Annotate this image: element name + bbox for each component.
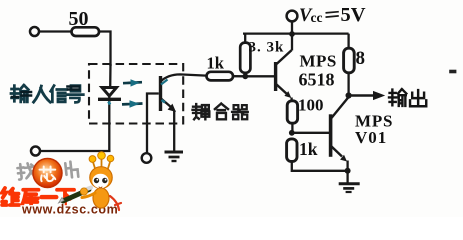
svg-text:3. 3k: 3. 3k <box>249 40 285 56</box>
wire output with arrow <box>352 91 386 100</box>
optocoupler dashed box <box>89 64 183 124</box>
resistor R2 1k <box>207 72 234 81</box>
svg-text:MPS: MPS <box>300 52 337 71</box>
node junction J1 <box>242 73 248 79</box>
svg-text:cc: cc <box>311 10 323 25</box>
wire <box>233 75 245 77</box>
transistor Q3 MPS V01 <box>331 98 348 171</box>
wire <box>291 123 293 133</box>
label ouheqi char ou <box>193 104 210 119</box>
svg-text:V01: V01 <box>355 128 387 147</box>
node junction J5 output <box>346 92 352 98</box>
wire emitter rail <box>292 162 348 171</box>
ground main <box>339 171 360 192</box>
LED D1 <box>98 64 121 151</box>
label shuru-xinhao char shu <box>11 85 28 102</box>
light arrow 2 <box>122 100 143 107</box>
resistor R5 1k <box>287 139 297 162</box>
terminal input bottom-left <box>31 147 40 156</box>
watermark mascot <box>82 152 121 210</box>
terminal input top-left <box>30 27 39 36</box>
svg-text:6518: 6518 <box>299 70 335 90</box>
label shuchu char shu <box>389 89 406 106</box>
svg-text:5V: 5V <box>341 4 366 26</box>
watermark red char yi <box>42 195 57 199</box>
node junction J2 <box>289 31 295 37</box>
node junction J3 <box>289 130 295 136</box>
label MPS V01 <box>355 112 393 147</box>
WATERMARK <box>2 152 121 217</box>
watermark char pian <box>65 161 78 178</box>
wire base of Q2 <box>245 75 274 77</box>
ground under optocoupler <box>165 152 184 161</box>
terminal Vcc <box>287 11 298 22</box>
resistor R3 3.3k <box>240 43 250 73</box>
transistor Q2 MPS6518 <box>276 50 292 101</box>
svg-text:1k: 1k <box>207 54 225 73</box>
label shuru-xinhao char ru <box>34 86 51 102</box>
terminal base open <box>142 153 152 163</box>
label Vcc=5V <box>299 4 366 26</box>
wire <box>291 21 293 50</box>
label shuru-xinhao char hao <box>68 86 84 103</box>
node junction J4 <box>345 168 351 174</box>
wire bottom-left <box>40 150 111 152</box>
label shuchu char chu <box>410 90 426 106</box>
resistor R1 50 <box>72 27 100 36</box>
wire <box>39 30 71 32</box>
resistor R6 8 <box>344 48 355 73</box>
label ouheqi char qi <box>232 105 248 119</box>
watermark char xin on disc <box>40 167 56 182</box>
watermark char zhao <box>17 163 35 180</box>
watermark red char wei <box>2 188 19 205</box>
label MPS 6518 <box>299 52 337 90</box>
wire <box>99 32 111 67</box>
stray mark top right <box>449 70 456 74</box>
label ouheqi char he <box>215 104 228 120</box>
watermark red char xia <box>57 190 74 205</box>
svg-text:8: 8 <box>356 48 366 69</box>
svg-text:1k: 1k <box>299 139 318 159</box>
wire base of Q3 <box>292 132 330 134</box>
phototransistor Q1 <box>161 74 207 150</box>
light arrow 1 <box>123 79 142 86</box>
label shuru-xinhao dark accents <box>12 87 79 98</box>
watermark red char ku <box>22 190 38 205</box>
watermark disc <box>0 0 1 1</box>
svg-text:50: 50 <box>69 8 89 30</box>
svg-text:100: 100 <box>298 96 324 115</box>
wire <box>347 73 349 96</box>
wire base pin of Q1 <box>147 94 159 154</box>
resistor R4 100 <box>287 101 297 123</box>
wire Vcc rail <box>243 34 349 77</box>
label shuru-xinhao char xin <box>51 86 67 102</box>
CJK-GLYPHS <box>11 85 426 119</box>
watermark pen <box>59 188 92 204</box>
